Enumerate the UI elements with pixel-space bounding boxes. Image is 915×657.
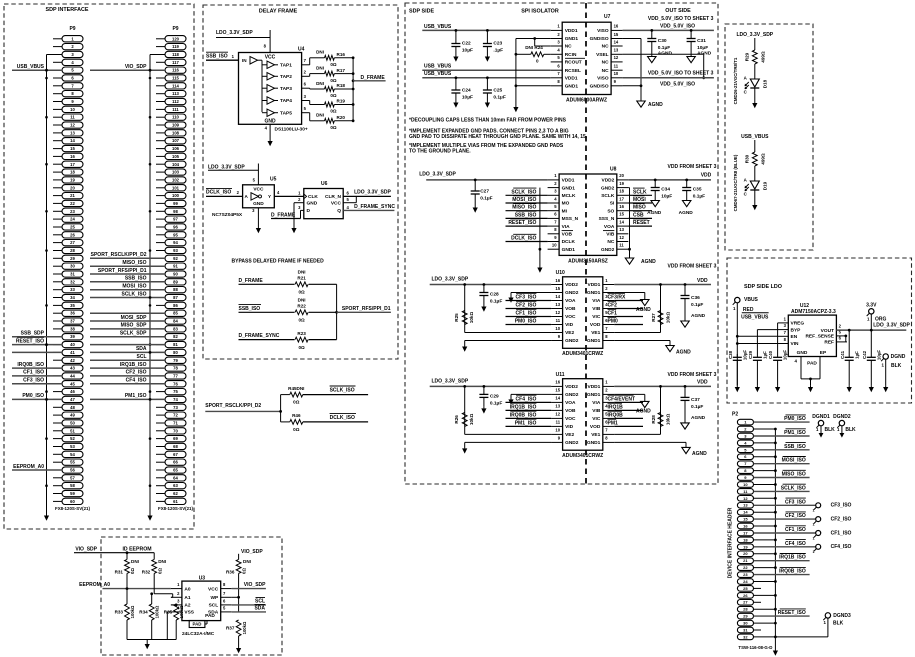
svg-text:30: 30 — [743, 621, 748, 626]
svg-text:SCLK: SCLK — [601, 193, 615, 199]
svg-text:P9: P9 — [172, 26, 178, 32]
svg-text:MOSI_SDP: MOSI_SDP — [121, 315, 148, 321]
svg-text:27: 27 — [743, 600, 748, 605]
svg-text:19: 19 — [70, 177, 75, 182]
svg-text:DGND1: DGND1 — [812, 414, 830, 420]
svg-text:VID: VID — [565, 424, 574, 430]
svg-text:CF1_ISO: CF1_ISO — [785, 527, 806, 533]
svg-text:15: 15 — [743, 517, 748, 522]
svg-text:.1µF: .1µF — [493, 48, 503, 54]
svg-text:SCLK_ISO: SCLK_ISO — [781, 485, 806, 491]
svg-text:IRQ0B: IRQ0B — [608, 412, 624, 418]
svg-text:GND1: GND1 — [587, 338, 601, 344]
svg-text:97: 97 — [173, 217, 178, 222]
svg-text:29: 29 — [743, 614, 748, 619]
svg-text:MOSI_ISO: MOSI_ISO — [122, 284, 146, 290]
svg-text:VIB: VIB — [592, 306, 601, 312]
svg-text:CLK: CLK — [308, 194, 318, 200]
svg-text:29: 29 — [70, 256, 75, 261]
svg-text:DCLK_ISO: DCLK_ISO — [511, 236, 536, 242]
svg-text:PM0_ISO: PM0_ISO — [784, 416, 806, 422]
svg-text:VDD: VDD — [701, 172, 712, 178]
svg-text:91: 91 — [173, 264, 178, 269]
svg-text:R37: R37 — [226, 626, 235, 631]
svg-text:NC: NC — [602, 44, 609, 50]
svg-text:PM0_ISO: PM0_ISO — [515, 319, 537, 325]
svg-text:48: 48 — [70, 405, 75, 410]
svg-text:73: 73 — [173, 405, 178, 410]
svg-text:VIA: VIA — [592, 400, 601, 406]
svg-text:VDD1: VDD1 — [565, 76, 578, 82]
svg-text:SPI ISOLATOR: SPI ISOLATOR — [521, 8, 559, 14]
svg-text:VDD FROM SHEET 3: VDD FROM SHEET 3 — [668, 372, 717, 378]
svg-text:28: 28 — [743, 607, 748, 612]
svg-text:AGND: AGND — [676, 349, 691, 355]
svg-text:NC: NC — [565, 44, 572, 50]
svg-text:R20: R20 — [337, 115, 346, 120]
svg-text:10kΩ: 10kΩ — [666, 312, 671, 324]
svg-text:VDD1: VDD1 — [562, 178, 575, 184]
svg-text:13: 13 — [619, 227, 624, 232]
svg-text:PM1_ISO: PM1_ISO — [125, 393, 147, 399]
svg-text:81: 81 — [173, 342, 178, 347]
svg-text:C24: C24 — [462, 88, 471, 94]
svg-text:R25: R25 — [454, 313, 459, 322]
svg-text:16: 16 — [555, 278, 560, 283]
svg-text:41: 41 — [70, 350, 75, 355]
svg-text:IN: IN — [242, 58, 247, 63]
svg-text:SCLK_ISO: SCLK_ISO — [330, 388, 355, 394]
svg-text:GND1: GND1 — [562, 185, 576, 191]
svg-text:R28: R28 — [651, 415, 656, 424]
svg-text:16: 16 — [555, 380, 560, 385]
svg-text:VOD: VOD — [590, 322, 601, 328]
svg-text:100kΩ: 100kΩ — [179, 605, 184, 618]
svg-text:499Ω: 499Ω — [761, 51, 766, 63]
svg-text:A2: A2 — [184, 603, 190, 609]
svg-text:VDD_5.0V_ISO TO SHEET 3: VDD_5.0V_ISO TO SHEET 3 — [648, 16, 714, 22]
svg-text:VREG: VREG — [791, 321, 805, 327]
svg-text:VOA: VOA — [565, 400, 576, 406]
svg-text:VE1: VE1 — [591, 432, 600, 438]
svg-text:18: 18 — [743, 537, 748, 542]
svg-text:24LC32A-I/MC: 24LC32A-I/MC — [182, 631, 215, 637]
svg-text:U7: U7 — [604, 14, 611, 20]
svg-text:0Ω: 0Ω — [242, 568, 247, 574]
svg-text:100kΩ: 100kΩ — [242, 621, 247, 634]
svg-text:DGND3: DGND3 — [833, 613, 851, 619]
svg-text:BYPASS DELAYED FRAME IF NEEDED: BYPASS DELAYED FRAME IF NEEDED — [232, 258, 325, 264]
svg-text:D_FRAME: D_FRAME — [361, 75, 386, 81]
svg-text:103: 103 — [172, 170, 180, 175]
svg-text:U6: U6 — [321, 181, 328, 187]
svg-text:LDO_3.3V_SDP: LDO_3.3V_SDP — [208, 164, 245, 170]
svg-text:18: 18 — [619, 189, 624, 194]
svg-text:SPORT_RSCLK/PPI_D2: SPORT_RSCLK/PPI_D2 — [205, 403, 261, 409]
svg-text:10: 10 — [555, 326, 560, 331]
svg-text:TAP2: TAP2 — [280, 74, 292, 80]
svg-text:93: 93 — [173, 248, 178, 253]
svg-text:101: 101 — [172, 185, 180, 190]
svg-text:TAP4: TAP4 — [280, 98, 292, 104]
svg-text:20: 20 — [743, 551, 748, 556]
svg-text:GND: GND — [797, 350, 808, 356]
svg-text:GND2: GND2 — [565, 338, 579, 344]
svg-text:79: 79 — [173, 358, 178, 363]
svg-text:MISO_SDP: MISO_SDP — [121, 323, 148, 329]
svg-text:26: 26 — [743, 593, 748, 598]
svg-text:VIB: VIB — [592, 408, 601, 414]
svg-text:TSW-116-08-G-D: TSW-116-08-G-D — [738, 645, 772, 650]
svg-text:VIO_SDP: VIO_SDP — [125, 64, 147, 70]
svg-text:GND2: GND2 — [601, 185, 615, 191]
svg-text:CMD26-21VGC/TR8/T1: CMD26-21VGC/TR8/T1 — [733, 57, 738, 104]
svg-text:VCC: VCC — [208, 586, 219, 592]
svg-text:SDP INTERFACE: SDP INTERFACE — [45, 7, 88, 13]
svg-text:DGND2: DGND2 — [833, 414, 851, 420]
svg-text:P9: P9 — [69, 26, 75, 32]
svg-text:U10: U10 — [556, 270, 565, 276]
svg-text:VIB: VIB — [606, 232, 615, 238]
svg-text:LDO_3.3V_SDP: LDO_3.3V_SDP — [216, 30, 253, 36]
svg-text:MCLK: MCLK — [562, 193, 576, 199]
svg-text:C36: C36 — [691, 295, 700, 301]
svg-text:AGND: AGND — [658, 51, 673, 57]
svg-text:12: 12 — [555, 310, 560, 315]
svg-text:115: 115 — [172, 76, 179, 81]
svg-text:SSS_N: SSS_N — [599, 216, 615, 222]
svg-text:59: 59 — [70, 491, 75, 496]
svg-text:CF3_ISO: CF3_ISO — [831, 503, 852, 509]
svg-text:MSS_N: MSS_N — [562, 216, 579, 222]
svg-text:GND PAD TO DISSIPATE HEAT THRO: GND PAD TO DISSIPATE HEAT THROUGH GND PL… — [409, 134, 588, 140]
svg-text:AGND: AGND — [679, 210, 694, 216]
svg-text:10kΩ: 10kΩ — [666, 413, 671, 425]
svg-text:DNI: DNI — [316, 50, 324, 55]
svg-text:PAD: PAD — [205, 613, 215, 619]
svg-text:DNI: DNI — [316, 81, 324, 86]
svg-text:1: 1 — [813, 509, 815, 513]
svg-text:VOC: VOC — [565, 314, 576, 320]
svg-text:VOA: VOA — [604, 224, 615, 230]
svg-text:34: 34 — [70, 295, 75, 300]
svg-text:GND1: GND1 — [565, 36, 579, 42]
svg-text:66: 66 — [173, 460, 178, 465]
svg-text:SPORT_RFS/PPI_D1: SPORT_RFS/PPI_D1 — [98, 268, 147, 274]
svg-text:USB_VBUS: USB_VBUS — [741, 134, 769, 140]
svg-text:62: 62 — [173, 491, 178, 496]
svg-text:0.1µF: 0.1µF — [691, 302, 703, 308]
svg-text:CMD67-21UGC/TR8 (BLUE): CMD67-21UGC/TR8 (BLUE) — [733, 154, 738, 211]
svg-text:63: 63 — [173, 483, 178, 488]
svg-text:SCL: SCL — [255, 599, 265, 605]
svg-text:CF2_ISO: CF2_ISO — [126, 370, 147, 376]
svg-text:0Ω: 0Ω — [330, 109, 337, 114]
svg-text:D19: D19 — [762, 181, 767, 190]
svg-text:15: 15 — [555, 286, 560, 291]
svg-text:DCLK_ISO: DCLK_ISO — [206, 190, 231, 196]
svg-text:14: 14 — [555, 396, 560, 401]
svg-text:Q: Q — [337, 208, 341, 214]
svg-text:SSB_ISO: SSB_ISO — [125, 276, 147, 282]
svg-text:10µF: 10µF — [742, 350, 747, 360]
svg-text:100kΩ: 100kΩ — [130, 605, 135, 618]
svg-text:33: 33 — [70, 287, 75, 292]
svg-text:17: 17 — [743, 530, 748, 535]
svg-text:0Ω: 0Ω — [330, 62, 337, 67]
svg-text:DGND: DGND — [891, 354, 906, 360]
svg-text:REF_SENSE: REF_SENSE — [805, 334, 834, 340]
svg-text:42: 42 — [70, 358, 75, 363]
svg-text:1µF: 1µF — [854, 351, 859, 359]
svg-text:DNI: DNI — [298, 270, 306, 275]
svg-text:C25: C25 — [493, 88, 502, 94]
svg-text:PM0_ISO: PM0_ISO — [22, 393, 44, 399]
svg-text:24: 24 — [70, 217, 75, 222]
svg-text:RESET_ISO: RESET_ISO — [508, 220, 536, 226]
svg-text:R18: R18 — [337, 83, 346, 88]
svg-text:VIA: VIA — [592, 298, 601, 304]
svg-text:PAD: PAD — [807, 361, 817, 367]
svg-text:A1: A1 — [184, 595, 190, 601]
svg-text:R31: R31 — [115, 569, 124, 574]
svg-text:RED: RED — [743, 307, 754, 313]
svg-text:0.1µF: 0.1µF — [493, 95, 505, 101]
svg-text:94: 94 — [173, 240, 178, 245]
svg-text:99: 99 — [173, 201, 178, 206]
svg-text:VISO: VISO — [597, 76, 609, 82]
svg-text:C29: C29 — [490, 394, 499, 400]
svg-text:PM1_ISO: PM1_ISO — [515, 420, 537, 426]
svg-text:R16: R16 — [337, 52, 346, 57]
svg-text:SCLK: SCLK — [633, 189, 647, 195]
svg-text:R22: R22 — [297, 304, 306, 309]
svg-text:13: 13 — [614, 48, 619, 53]
svg-text:CF2_ISO: CF2_ISO — [831, 516, 852, 522]
svg-text:AGND: AGND — [691, 313, 706, 319]
svg-text:RESET_ISO: RESET_ISO — [778, 610, 806, 616]
svg-text:VIC: VIC — [592, 416, 601, 422]
svg-text:52: 52 — [70, 436, 75, 441]
svg-text:49: 49 — [70, 413, 75, 418]
svg-text:14: 14 — [619, 219, 624, 224]
svg-text:SCL: SCL — [137, 354, 147, 360]
svg-text:VOUT: VOUT — [821, 328, 834, 334]
svg-text:44: 44 — [70, 373, 75, 378]
svg-text:VOB: VOB — [562, 232, 573, 238]
svg-text:TAP5: TAP5 — [280, 110, 292, 116]
svg-text:20: 20 — [619, 173, 624, 178]
svg-text:0.1µF: 0.1µF — [480, 196, 492, 202]
svg-text:USB_VBUS: USB_VBUS — [424, 64, 452, 70]
svg-text:C40: C40 — [768, 350, 773, 359]
svg-text:CF2_ISO: CF2_ISO — [785, 513, 806, 519]
svg-text:10kΩ: 10kΩ — [469, 312, 474, 324]
svg-text:GND1: GND1 — [587, 290, 601, 296]
svg-text:C28: C28 — [490, 292, 499, 298]
svg-text:117: 117 — [172, 60, 179, 65]
svg-text:32: 32 — [70, 279, 75, 284]
svg-text:D_FRAME_SYNC: D_FRAME_SYNC — [239, 333, 280, 339]
svg-text:SI: SI — [610, 201, 615, 207]
svg-text:GND1: GND1 — [565, 84, 579, 90]
svg-text:SPORT_RFS/PPI_D1: SPORT_RFS/PPI_D1 — [342, 306, 391, 312]
svg-text:MISO_ISO: MISO_ISO — [512, 205, 536, 211]
svg-text:D_FRAME: D_FRAME — [239, 278, 264, 284]
svg-text:DCLK_ISO: DCLK_ISO — [330, 415, 355, 421]
svg-text:ADUM3401CRWZ: ADUM3401CRWZ — [562, 453, 603, 459]
svg-text:39: 39 — [70, 334, 75, 339]
svg-text:VDD1: VDD1 — [565, 28, 578, 34]
svg-text:VE2: VE2 — [565, 330, 574, 336]
svg-text:CF4/EVENT: CF4/EVENT — [608, 396, 636, 402]
svg-text:MISO_ISO: MISO_ISO — [782, 472, 806, 478]
svg-text:25: 25 — [70, 225, 75, 230]
svg-text:CF4_ISO: CF4_ISO — [785, 541, 806, 547]
svg-text:10µF: 10µF — [783, 350, 788, 360]
svg-text:GNDISO: GNDISO — [590, 84, 609, 90]
svg-text:FX8-120S-SV(21): FX8-120S-SV(21) — [55, 506, 90, 511]
svg-text:VDD2: VDD2 — [565, 384, 578, 390]
svg-text:LDO_3.3V_SDP: LDO_3.3V_SDP — [736, 32, 773, 38]
svg-text:1: 1 — [813, 550, 815, 554]
svg-text:C39: C39 — [748, 350, 753, 359]
svg-text:GND2: GND2 — [565, 440, 579, 446]
svg-text:REF: REF — [824, 340, 834, 346]
svg-text:RCSEL: RCSEL — [565, 68, 581, 74]
svg-text:0Ω: 0Ω — [293, 400, 300, 405]
svg-text:D_FRAME_SYNC: D_FRAME_SYNC — [354, 204, 395, 210]
svg-text:U4: U4 — [298, 46, 305, 52]
svg-text:VDD FROM SHEET 3: VDD FROM SHEET 3 — [668, 164, 717, 170]
svg-text:C22: C22 — [462, 41, 471, 47]
svg-text:58: 58 — [70, 483, 75, 488]
svg-text:13: 13 — [70, 130, 75, 135]
svg-text:3.3V: 3.3V — [866, 302, 877, 308]
svg-text:0Ω: 0Ω — [330, 125, 337, 130]
svg-text:PM1: PM1 — [608, 420, 619, 426]
svg-text:NC: NC — [607, 239, 614, 245]
svg-text:RCIN: RCIN — [565, 52, 577, 58]
svg-text:USB_VBUS: USB_VBUS — [17, 64, 45, 70]
svg-text:IRQ0B_ISO: IRQ0B_ISO — [779, 569, 806, 575]
svg-text:MOSI_ISO: MOSI_ISO — [782, 458, 806, 464]
svg-text:74: 74 — [173, 397, 178, 402]
svg-text:FX8-120S-SV(21): FX8-120S-SV(21) — [158, 506, 193, 511]
svg-text:SSB_SDP: SSB_SDP — [21, 331, 45, 337]
svg-text:19: 19 — [743, 544, 748, 549]
svg-text:R45DNI: R45DNI — [288, 386, 304, 391]
svg-text:AGND: AGND — [636, 409, 651, 415]
svg-text:CF4_ISO: CF4_ISO — [126, 378, 147, 384]
svg-text:IRQ0B_ISO: IRQ0B_ISO — [510, 412, 537, 418]
svg-text:SCL: SCL — [209, 603, 219, 609]
svg-text:78: 78 — [173, 366, 178, 371]
svg-text:104: 104 — [172, 162, 180, 167]
svg-text:57: 57 — [70, 475, 75, 480]
svg-text:35: 35 — [70, 303, 75, 308]
svg-text:A0: A0 — [184, 586, 190, 592]
svg-text:C34: C34 — [661, 187, 670, 193]
svg-text:MOSI_ISO: MOSI_ISO — [512, 197, 536, 203]
svg-text:77: 77 — [173, 373, 178, 378]
svg-text:SDP SIDE: SDP SIDE — [409, 8, 434, 14]
svg-text:VOD: VOD — [590, 424, 601, 430]
svg-text:MO: MO — [562, 201, 570, 207]
svg-text:GND2: GND2 — [565, 290, 579, 296]
svg-text:87: 87 — [173, 295, 178, 300]
svg-text:DNI R24: DNI R24 — [525, 45, 543, 50]
svg-text:15: 15 — [70, 146, 75, 151]
svg-text:CF2: CF2 — [608, 303, 618, 309]
svg-text:ADM7150ACPZ-3.3: ADM7150ACPZ-3.3 — [791, 309, 836, 315]
svg-text:11: 11 — [70, 115, 75, 120]
svg-text:12: 12 — [555, 412, 560, 417]
svg-text:119: 119 — [172, 44, 179, 49]
svg-text:45: 45 — [70, 381, 75, 386]
svg-text:VDD_5.0V_ISO: VDD_5.0V_ISO — [660, 82, 695, 88]
svg-text:64: 64 — [173, 475, 178, 480]
svg-text:RCOUT: RCOUT — [565, 60, 582, 66]
svg-text:11: 11 — [619, 243, 624, 248]
svg-text:SSB_ISO: SSB_ISO — [206, 53, 228, 59]
svg-text:R32: R32 — [142, 569, 151, 574]
svg-text:96: 96 — [173, 225, 178, 230]
svg-text:GND1: GND1 — [587, 392, 601, 398]
svg-text:23: 23 — [70, 209, 75, 214]
svg-text:PM1_ISO: PM1_ISO — [784, 430, 806, 436]
svg-text:17: 17 — [619, 196, 624, 201]
svg-text:WP: WP — [210, 595, 219, 601]
svg-text:107: 107 — [172, 138, 180, 143]
svg-text:0Ω: 0Ω — [330, 78, 337, 83]
svg-text:CF4_ISO: CF4_ISO — [516, 396, 537, 402]
svg-text:VIO_SDP: VIO_SDP — [75, 546, 97, 552]
svg-text:110: 110 — [172, 115, 179, 120]
svg-text:C30: C30 — [658, 38, 667, 44]
svg-text:19: 19 — [619, 181, 624, 186]
svg-text:IRQ1B_ISO: IRQ1B_ISO — [779, 555, 806, 561]
svg-text:10µF: 10µF — [876, 350, 881, 360]
svg-text:CSB: CSB — [633, 212, 644, 218]
svg-text:D18: D18 — [762, 79, 767, 88]
svg-text:23: 23 — [743, 572, 748, 577]
svg-text:10µF: 10µF — [462, 95, 473, 101]
svg-text:10: 10 — [614, 71, 619, 76]
svg-text:R27: R27 — [651, 313, 656, 322]
svg-text:MI: MI — [562, 208, 568, 214]
svg-text:22: 22 — [743, 565, 748, 570]
svg-text:69: 69 — [173, 436, 178, 441]
svg-text:106: 106 — [172, 146, 180, 151]
svg-text:CF4_ISO: CF4_ISO — [831, 544, 852, 550]
svg-text:VIA: VIA — [562, 224, 571, 230]
svg-text:CF3/RX: CF3/RX — [608, 295, 626, 301]
svg-text:VE1: VE1 — [591, 330, 600, 336]
svg-text:0Ω: 0Ω — [298, 318, 305, 323]
svg-text:CF3_ISO: CF3_ISO — [516, 295, 537, 301]
svg-text:0.1µF: 0.1µF — [490, 299, 502, 305]
svg-text:24: 24 — [743, 579, 748, 584]
svg-text:109: 109 — [172, 123, 180, 128]
svg-text:VDD FROM SHEET 3: VDD FROM SHEET 3 — [668, 263, 717, 269]
svg-text:46: 46 — [70, 389, 75, 394]
svg-text:TAP1: TAP1 — [280, 63, 292, 69]
svg-text:108: 108 — [172, 130, 180, 135]
svg-text:VIO_SDP: VIO_SDP — [241, 549, 263, 555]
svg-text:AGND: AGND — [692, 451, 707, 457]
svg-text:PM0: PM0 — [608, 319, 619, 325]
